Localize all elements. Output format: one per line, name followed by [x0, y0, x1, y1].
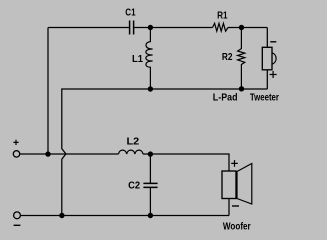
inductor L2: [119, 150, 144, 154]
capacitor C2 wires: [149, 154, 151, 216]
wire from L2 to woofer corner: [143, 154, 229, 171]
resistor R2: [238, 28, 245, 89]
svg-text:Woofer: Woofer: [223, 222, 251, 233]
node C1-L1 junction: [148, 25, 153, 30]
svg-text:L2: L2: [127, 137, 140, 148]
plus label tweeter: [270, 71, 277, 78]
tweeter dome: [272, 53, 276, 64]
svg-text:R2: R2: [222, 52, 233, 63]
svg-text:L1: L1: [132, 54, 143, 65]
minus label input: [14, 224, 21, 226]
inductor L1: [146, 28, 153, 90]
wire bottom minus rail: [21, 215, 229, 217]
woofer cone: [237, 164, 252, 205]
minus label woofer: [232, 205, 239, 207]
minus label tweeter: [270, 41, 276, 43]
wire woofer bottom: [228, 199, 230, 216]
svg-text:R1: R1: [217, 11, 228, 22]
wire plus input rail: [20, 153, 119, 155]
svg-text:C1: C1: [125, 8, 136, 19]
node plus input junction: [45, 151, 50, 156]
node R1-R2 junction: [239, 25, 244, 30]
wire top rail right segment: [228, 27, 267, 29]
node C2 bottom junction: [148, 213, 153, 218]
terminal minus input: [14, 212, 21, 219]
node L1 bottom junction: [148, 86, 153, 91]
wire top rail left segment: [48, 27, 130, 29]
tweeter body: [262, 47, 272, 70]
wire left vertical from plus node to top rail: [47, 28, 49, 155]
capacitor C2 plates: [143, 183, 157, 187]
tweeter U1 wires: [266, 28, 268, 90]
capacitor C1: [130, 21, 134, 35]
resistor R1: [213, 23, 229, 31]
plus label input: [13, 140, 18, 145]
node minus rail junction: [59, 213, 64, 218]
node L-Pad bottom junction: [239, 86, 244, 91]
terminal plus input: [13, 151, 19, 157]
wire top rail middle segment: [134, 27, 213, 29]
woofer body: [222, 171, 236, 199]
svg-text:Tweeter: Tweeter: [250, 93, 279, 104]
plus label woofer: [231, 160, 238, 167]
svg-text:C2: C2: [128, 181, 140, 192]
svg-text:L-Pad: L-Pad: [213, 93, 238, 104]
wire lower rail of tweeter loop with crossover hop: [62, 89, 267, 216]
node L2-C2 junction: [148, 151, 153, 156]
